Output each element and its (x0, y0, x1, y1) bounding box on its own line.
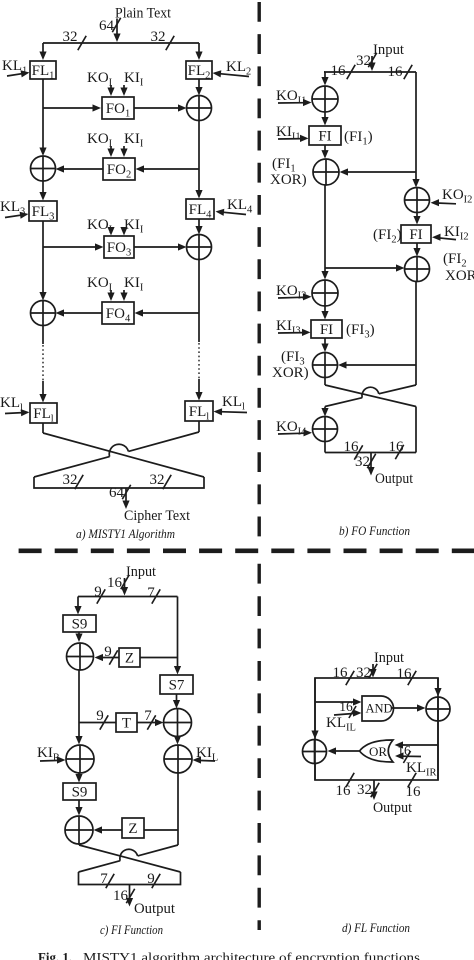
function block FL_l left (30, 403, 57, 425)
xor node cE (65, 816, 93, 844)
xor node cA (67, 643, 94, 670)
xor node b4 (405, 257, 430, 282)
wire swap b diagonal right-to-left with hop (325, 385, 416, 407)
key label KI_I row3 (124, 217, 144, 236)
wire Za to xor cA (95, 654, 120, 661)
xor node b6 (313, 353, 338, 378)
key arrows into FO1 (107, 85, 127, 96)
wire rect b left edge (321, 407, 328, 417)
svg-text:AND: AND (365, 702, 392, 716)
figure caption (cut at page edge) (38, 951, 420, 960)
label 16 b bottom left (344, 439, 363, 460)
function block FI3 (311, 320, 342, 338)
wire right edge lower (437, 721, 439, 780)
wire left rail b mid (321, 185, 328, 280)
label Input c (126, 564, 156, 580)
svg-text:FI: FI (320, 322, 333, 338)
svg-text:XOR): XOR) (270, 172, 307, 188)
svg-text:FL2: FL2 (188, 63, 211, 82)
or gate (360, 740, 394, 762)
wire FO3 to xor (134, 243, 187, 250)
key input KI_I3 (276, 318, 311, 337)
svg-text:FO1: FO1 (106, 101, 130, 120)
wire FI3 to xor b6 (321, 338, 328, 352)
wire right rail b lower (415, 282, 417, 386)
svg-text:32: 32 (150, 472, 165, 488)
key arrows into FO2 (107, 146, 127, 157)
function block FI2 (401, 225, 431, 243)
wire b1 to FI1 (321, 112, 328, 126)
svg-text:(FI1): (FI1) (344, 129, 373, 148)
svg-text:KII: KII (124, 275, 144, 294)
svg-text:S9: S9 (72, 617, 88, 633)
label 32 funnel right (150, 472, 172, 489)
wire FO2 to xor left (56, 165, 104, 172)
key label KO_I row1 (87, 70, 113, 89)
label 9 funnel c (147, 871, 160, 888)
separator dashed vertical upper (258, 2, 261, 536)
and gate (362, 696, 394, 721)
svg-text:FLl: FLl (33, 406, 54, 425)
svg-text:7: 7 (144, 708, 152, 724)
svg-text:9: 9 (96, 708, 104, 724)
svg-text:16: 16 (344, 439, 360, 455)
label 64 bus width (99, 18, 121, 34)
wire OR to xor dL (328, 747, 361, 754)
concat funnel a (34, 477, 204, 488)
wire output tap d (370, 780, 377, 800)
svg-text:32: 32 (63, 29, 78, 45)
z-delay Zb (122, 818, 144, 838)
wire right rail feed FO4 (135, 309, 200, 316)
wire FL2 to xor (195, 79, 202, 96)
sbox S9 upper (63, 615, 96, 633)
caption b (339, 524, 410, 538)
wire FL4 to xor (195, 219, 202, 235)
key input KL3 (0, 199, 29, 219)
caption c (100, 923, 163, 937)
xor node left row2 (31, 156, 56, 181)
label 16 c bottom (113, 888, 135, 904)
wire right rail c lower (177, 773, 179, 845)
wire input bus b (368, 56, 375, 71)
key input KL_IL (326, 709, 362, 733)
wire right edge top to xor dR (434, 678, 441, 697)
wire FI1 to xor b2 (321, 145, 328, 159)
key arrows into FO4 (107, 290, 127, 301)
label Plain Text (115, 6, 171, 22)
label 32 d bottom (357, 782, 379, 798)
label 16 d top-left (333, 665, 355, 685)
svg-text:KLIL: KLIL (326, 715, 356, 734)
xor node cC (66, 745, 94, 773)
svg-text:KII2: KII2 (444, 224, 469, 243)
key input KL4 (216, 197, 254, 216)
svg-text:16: 16 (397, 666, 413, 682)
wire FO1 to xor (134, 104, 187, 111)
svg-text:32: 32 (151, 29, 166, 45)
function block FL4 (186, 199, 214, 221)
wire S9b to xor cE (75, 800, 82, 816)
function block FO1 (102, 97, 134, 120)
label 16 b right (388, 64, 413, 80)
svg-text:16: 16 (113, 888, 129, 904)
wire left edge to xor dL (311, 678, 318, 739)
wire Zb to right rail (144, 829, 178, 831)
key input KO_I1 (276, 88, 312, 107)
wire S9a to xor (75, 632, 82, 642)
label (FI2) (373, 227, 402, 246)
sbox S9 lower (63, 783, 96, 801)
svg-text:16: 16 (333, 665, 349, 681)
label 32 b bottom (355, 454, 376, 470)
caption a (76, 527, 175, 541)
wire swap c stub (78, 844, 80, 845)
svg-text:KII: KII (124, 217, 144, 236)
function block FO4 (102, 302, 134, 325)
wire into FL2 (195, 43, 202, 60)
wire FL1 down (39, 79, 46, 156)
label 32 funnel left (63, 472, 84, 489)
key input KI_R (37, 745, 66, 764)
wire cipher tap (122, 488, 129, 509)
label 16 b left (331, 63, 356, 79)
xor node dR (426, 697, 450, 721)
xor node b2 (313, 159, 339, 185)
delay T (116, 713, 137, 732)
label (FI1) (344, 129, 373, 148)
svg-text:T: T (122, 716, 131, 732)
wire dotted left (39, 326, 46, 403)
label 16 d bottom-left (336, 773, 355, 799)
label Input d (374, 650, 404, 666)
label 32 left (63, 29, 87, 50)
wire swap stub left (42, 423, 44, 433)
wire right to xor b2 (340, 168, 417, 175)
wire into S9a (74, 597, 81, 615)
label 16 KL_IR (397, 743, 411, 763)
svg-text:9: 9 (104, 644, 112, 660)
key input KL2 (213, 59, 252, 78)
wire left rail feed xor b4 (325, 264, 405, 271)
label 16 d bottom-right (406, 773, 422, 800)
function block FL1 (30, 61, 56, 82)
wire input bus c (121, 578, 128, 596)
svg-text:KOI: KOI (87, 70, 113, 89)
svg-text:Fig. 1.: Fig. 1. (38, 951, 72, 960)
label Output d (373, 800, 412, 816)
wire left rail feed T (79, 722, 116, 724)
svg-text:KOI: KOI (87, 275, 113, 294)
wire FI2 to xor b4 (413, 243, 420, 257)
key input KO_I4 (276, 419, 312, 438)
label Output c (134, 901, 175, 917)
wire right to OR upper input (395, 741, 439, 748)
label 16 KL_IL (339, 699, 356, 718)
wire swap diagonal left-to-right (43, 433, 204, 477)
svg-text:16: 16 (339, 699, 353, 714)
wire swap c diagonal left-to-right (79, 845, 181, 872)
wire input bus d (369, 664, 376, 678)
wire swap diagonal right-to-left with hop (34, 432, 199, 477)
svg-text:MISTY1 algorithm architecture: MISTY1 algorithm architecture of encrypt… (83, 951, 420, 960)
svg-text:KLl: KLl (222, 394, 245, 413)
xor node b1 (312, 86, 338, 112)
svg-text:Output: Output (134, 901, 175, 917)
wire into xor b1 (321, 72, 328, 86)
svg-text:Output: Output (373, 800, 412, 816)
svg-text:XOR): XOR) (445, 268, 474, 284)
key input KO_I3 (276, 283, 312, 302)
wire Zb to xor cE (94, 826, 123, 833)
wire into FL1 (39, 43, 46, 60)
svg-text:KOI: KOI (87, 217, 113, 236)
svg-text:FI: FI (318, 129, 331, 145)
wire right rail down row4 (198, 260, 200, 314)
svg-text:16: 16 (388, 64, 404, 80)
svg-text:Z: Z (128, 821, 137, 837)
xor node dL (303, 740, 327, 764)
xor node cB (164, 709, 192, 737)
key label KI_I row2 (124, 131, 144, 150)
wire right rail c to xor cD (174, 736, 181, 745)
key input KI_I2 (432, 224, 469, 243)
label 9 c t (96, 708, 108, 730)
function block FL2 (186, 61, 212, 82)
xor node left row4 (31, 301, 56, 326)
label Cipher Text (124, 508, 190, 524)
xor node b7 (313, 417, 338, 442)
svg-text:FLl: FLl (189, 404, 210, 423)
function block FL3 (29, 201, 57, 223)
svg-text:16: 16 (107, 575, 123, 591)
label (FI3) (346, 322, 375, 341)
label 16 d top-right (397, 666, 417, 685)
key label KI_I row1 (124, 70, 144, 89)
wire b3 to FI2 (413, 213, 420, 225)
wire right to xor b6 (338, 361, 416, 368)
label 32 right (151, 29, 175, 50)
svg-text:FL4: FL4 (189, 202, 213, 221)
wire FO1 feed (43, 104, 101, 111)
svg-text:KLIR: KLIR (406, 760, 437, 779)
wire left rail c mid (75, 670, 82, 745)
wire swap stub right (198, 421, 200, 432)
svg-text:16: 16 (397, 743, 411, 758)
svg-text:Plain Text: Plain Text (115, 6, 171, 22)
wire Za to right rail (140, 657, 178, 659)
label 16 c top (107, 575, 129, 591)
label 32 d top (356, 664, 377, 681)
svg-text:KLl: KLl (0, 395, 23, 414)
svg-text:32: 32 (63, 472, 78, 488)
key input KO_I2 (431, 187, 473, 206)
wire rect b left lower (324, 442, 326, 453)
wire rect b bottom (325, 452, 416, 454)
xor node cD (164, 745, 192, 773)
label 7 c t (144, 708, 155, 730)
wire left edge lower (314, 764, 316, 781)
svg-text:(FI2): (FI2) (373, 227, 402, 246)
svg-text:16: 16 (331, 63, 347, 79)
label (FI2 XOR) (443, 251, 474, 284)
label 32 b top (356, 53, 377, 69)
wire right rail to FL4 (195, 121, 202, 199)
svg-text:Z: Z (125, 651, 134, 667)
key input KL_l left (0, 395, 30, 416)
svg-text:FO3: FO3 (107, 240, 131, 259)
key label KO_I row2 (87, 131, 113, 150)
wire AND to xor dR (392, 704, 426, 711)
svg-text:Input: Input (126, 564, 156, 580)
svg-text:b) FO Function: b) FO Function (339, 524, 410, 538)
key label KI_I row4 (124, 275, 144, 294)
label 16 b bottom right (389, 439, 405, 459)
wire b5 to FI3 (321, 306, 328, 320)
svg-text:c) FI Function: c) FI Function (100, 923, 163, 937)
svg-text:KOI: KOI (87, 131, 113, 150)
concat funnel c (79, 872, 181, 885)
svg-text:FI: FI (409, 227, 422, 243)
function block FO2 (103, 158, 135, 181)
wire xor into FL3 (39, 181, 46, 201)
svg-text:(FI2: (FI2 (443, 251, 467, 270)
caption d (342, 921, 410, 935)
key input KL_l right (214, 394, 248, 415)
function block FI1 (309, 126, 341, 145)
svg-text:S7: S7 (169, 678, 185, 694)
label 64 output (109, 485, 131, 501)
svg-text:KII: KII (124, 131, 144, 150)
wire output tap c (126, 885, 133, 907)
wire rect b right edge (415, 407, 417, 453)
svg-text:Input: Input (374, 650, 404, 666)
svg-text:FL1: FL1 (32, 63, 55, 82)
label (FI1 XOR) (270, 156, 307, 188)
label (FI3 XOR) (272, 349, 309, 381)
svg-text:16: 16 (336, 783, 352, 799)
svg-text:XOR): XOR) (272, 365, 309, 381)
key input KI_L (193, 745, 219, 764)
svg-text:FO4: FO4 (106, 306, 131, 325)
wire swap b stub (324, 378, 326, 386)
label Output b (375, 471, 413, 487)
svg-text:32: 32 (357, 782, 372, 798)
svg-text:KII: KII (124, 70, 144, 89)
wire T to xor cB (137, 719, 164, 726)
wire top split c (78, 596, 178, 598)
wire FL3 down (39, 221, 46, 301)
key label KO_I row4 (87, 275, 113, 294)
svg-text:Output: Output (375, 471, 413, 487)
z-delay Za (119, 648, 140, 667)
svg-text:Input: Input (373, 42, 404, 58)
svg-text:d) FL Function: d) FL Function (342, 921, 410, 935)
wire right rail c upper (174, 597, 181, 675)
svg-text:FO2: FO2 (107, 162, 131, 181)
wire left edge to AND (315, 698, 362, 705)
wire dotted right (195, 313, 202, 401)
separator dashed horizontal (19, 548, 474, 553)
key input KI_I1 (276, 124, 309, 143)
function block FL_l right (185, 401, 213, 423)
label 9 c za (104, 644, 117, 665)
wire S7 to xor cB (173, 694, 180, 709)
sbox S7 (160, 675, 193, 694)
key label KO_I row3 (87, 217, 113, 236)
key input KL1 (2, 58, 30, 77)
wire FO4 to xor left (56, 309, 103, 316)
wire top split 32/32 (43, 42, 199, 44)
wire FO3 feed (43, 243, 104, 250)
xor node b3 (405, 188, 430, 213)
wire plain-text input bus 64 (113, 19, 120, 43)
svg-text:S9: S9 (72, 785, 88, 801)
function block FO3 (104, 236, 134, 259)
FL body rect (315, 678, 438, 780)
label Input b (373, 42, 404, 58)
svg-text:a) MISTY1 Algorithm: a) MISTY1 Algorithm (76, 527, 175, 541)
key input KL_IR (395, 752, 437, 778)
wire swap b diagonal left-to-right (325, 385, 416, 407)
wire output tap b (367, 453, 374, 476)
wire swap c diagonal right-to-left with hop (79, 845, 179, 872)
svg-text:OR: OR (369, 744, 387, 759)
label 9 c top (94, 584, 105, 604)
key arrows into FO3 (107, 227, 127, 236)
wire cC to S9b (75, 773, 82, 783)
xor node b5 (312, 280, 338, 306)
wire right rail feed FO2 (136, 165, 200, 172)
wire right rail b upper (412, 72, 419, 188)
xor node right row1 (187, 96, 212, 121)
label 7 c top (147, 585, 160, 604)
svg-text:(FI3): (FI3) (346, 322, 375, 341)
xor node right row3 (187, 235, 212, 260)
svg-text:FL3: FL3 (32, 204, 55, 223)
separator dashed vertical lower (258, 564, 261, 930)
wire top split b (324, 71, 416, 73)
svg-text:Cipher Text: Cipher Text (124, 508, 190, 524)
label 7 funnel c (100, 871, 114, 888)
